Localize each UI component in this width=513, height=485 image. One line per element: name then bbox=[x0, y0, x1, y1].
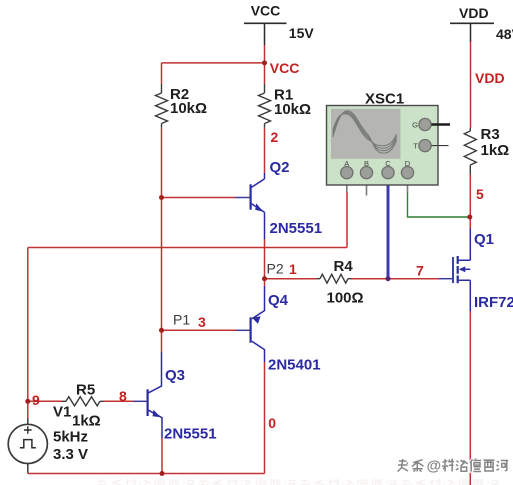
svg-text:3.3 V: 3.3 V bbox=[53, 446, 88, 463]
svg-text:48V: 48V bbox=[496, 26, 513, 42]
svg-text:R5: R5 bbox=[76, 382, 95, 399]
svg-text:1: 1 bbox=[289, 261, 297, 277]
svg-text:5: 5 bbox=[476, 186, 484, 202]
svg-text:V1: V1 bbox=[53, 404, 71, 421]
svg-text:7: 7 bbox=[416, 263, 424, 279]
svg-text:15V: 15V bbox=[289, 25, 315, 41]
svg-text:R4: R4 bbox=[334, 258, 354, 275]
svg-text:Q1: Q1 bbox=[474, 231, 494, 248]
svg-text:VCC: VCC bbox=[251, 3, 281, 19]
svg-text:Q3: Q3 bbox=[165, 367, 185, 384]
svg-text:C: C bbox=[385, 159, 391, 168]
svg-text:3: 3 bbox=[198, 314, 206, 330]
svg-text:VCC: VCC bbox=[270, 60, 300, 76]
svg-text:B: B bbox=[364, 159, 369, 168]
svg-text:P2: P2 bbox=[267, 261, 284, 277]
svg-text:VDD: VDD bbox=[459, 5, 489, 21]
svg-text:A: A bbox=[344, 159, 349, 168]
svg-text:@: @ bbox=[427, 458, 442, 475]
svg-text:1kΩ: 1kΩ bbox=[481, 142, 510, 159]
svg-text:VDD: VDD bbox=[475, 70, 505, 86]
svg-text:100Ω: 100Ω bbox=[327, 290, 364, 307]
svg-text:P1: P1 bbox=[173, 312, 190, 328]
svg-text:Q4: Q4 bbox=[268, 292, 289, 309]
svg-text:5kHz: 5kHz bbox=[53, 429, 88, 446]
svg-text:D: D bbox=[405, 159, 411, 168]
svg-text:0: 0 bbox=[268, 415, 276, 431]
svg-text:10kΩ: 10kΩ bbox=[274, 101, 311, 118]
svg-text:2: 2 bbox=[271, 129, 279, 145]
svg-text:Q2: Q2 bbox=[270, 159, 290, 176]
svg-text:2N5551: 2N5551 bbox=[164, 426, 217, 443]
svg-text:R3: R3 bbox=[481, 126, 500, 143]
svg-text:8: 8 bbox=[119, 388, 127, 404]
svg-text:G: G bbox=[412, 120, 418, 129]
svg-text:9: 9 bbox=[32, 392, 40, 408]
svg-text:XSC1: XSC1 bbox=[365, 91, 404, 108]
svg-text:IRF720: IRF720 bbox=[474, 294, 513, 311]
svg-text:T: T bbox=[413, 141, 418, 150]
svg-text:10kΩ: 10kΩ bbox=[170, 100, 207, 117]
svg-text:2N5551: 2N5551 bbox=[270, 220, 323, 237]
svg-text:2N5401: 2N5401 bbox=[268, 357, 321, 374]
svg-text:1kΩ: 1kΩ bbox=[72, 413, 101, 430]
